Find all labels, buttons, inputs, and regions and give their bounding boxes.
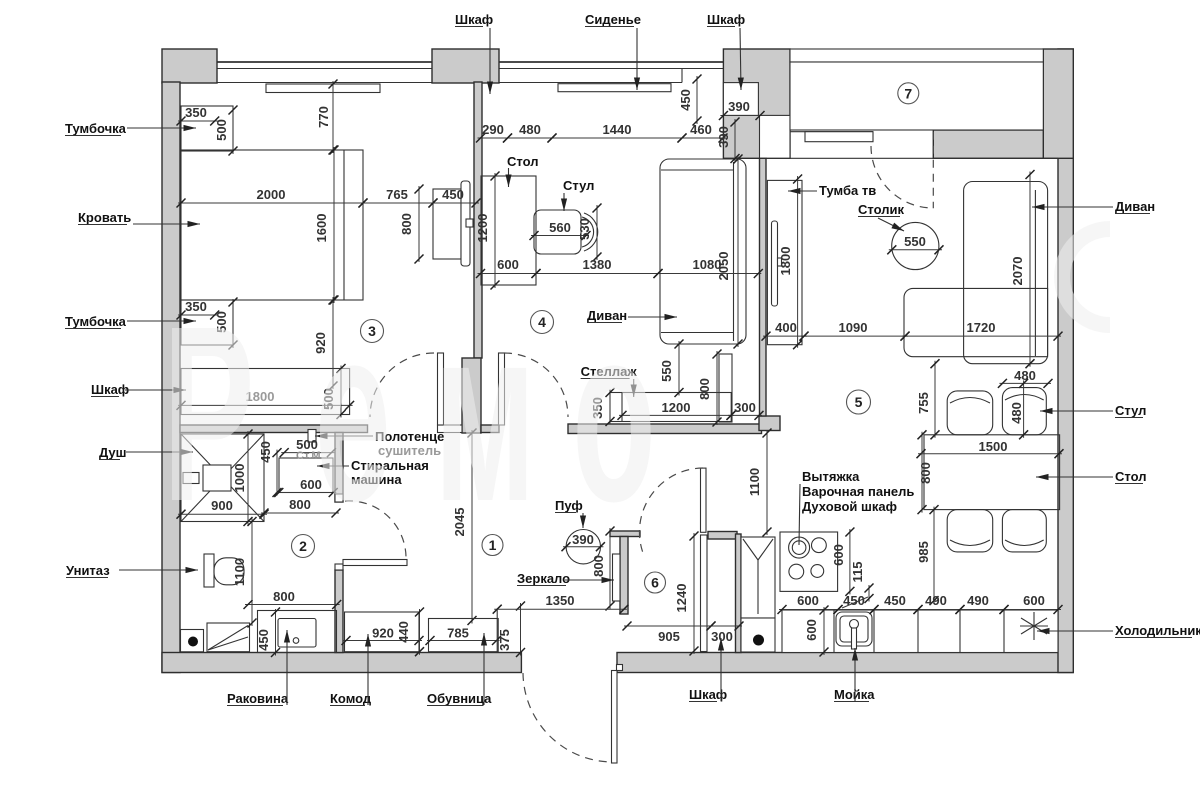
dim 920	[313, 296, 338, 391]
dining chair 1	[947, 391, 993, 435]
wall column between hall doors	[462, 358, 481, 433]
dining chair 4	[1002, 510, 1046, 552]
dining table room5	[924, 435, 1060, 510]
dim 900	[177, 498, 269, 519]
svg-text:920: 920	[372, 626, 394, 641]
svg-text:Комод: Комод	[330, 691, 372, 706]
dim 770	[316, 80, 338, 155]
svg-text:2: 2	[299, 538, 307, 554]
svg-text:800: 800	[273, 589, 295, 604]
dim 1200	[475, 172, 500, 290]
svg-text:115: 115	[850, 562, 865, 583]
label Унитаз	[66, 563, 198, 578]
komod room3	[433, 189, 461, 259]
svg-text:Душ: Душ	[99, 445, 127, 460]
svg-text:800: 800	[399, 213, 414, 235]
svg-text:450: 450	[442, 187, 464, 202]
dining chair 2	[1002, 388, 1046, 435]
dim 450	[870, 593, 923, 614]
radiator under window room3	[266, 84, 380, 93]
svg-text:800: 800	[289, 497, 311, 512]
dining chair 3	[947, 510, 993, 552]
corner boxes bottom-left	[181, 623, 250, 652]
dim 1100	[232, 517, 257, 628]
dim 300	[727, 400, 764, 420]
label Шкаф	[455, 12, 493, 94]
svg-text:5: 5	[855, 394, 863, 410]
svg-text:Стол: Стол	[1115, 469, 1146, 484]
label Зеркало	[517, 571, 614, 586]
wall stub right of column	[481, 425, 499, 433]
dim 800	[260, 497, 341, 518]
label Холодильник	[1037, 623, 1200, 638]
wall bath right cap2	[335, 564, 343, 570]
room number 4	[531, 311, 554, 334]
hob counter with burners	[780, 532, 838, 591]
balcony door open leaf (dashed)	[932, 132, 934, 209]
svg-text:450: 450	[678, 89, 693, 111]
dim 530	[577, 204, 602, 262]
room number 3	[361, 320, 384, 343]
dim 600	[804, 606, 829, 657]
label Стол	[1036, 469, 1146, 484]
svg-text:Холодильник: Холодильник	[1115, 623, 1200, 638]
room 3 door swing arc	[370, 353, 434, 417]
dim 450	[834, 593, 879, 614]
dim 2045	[452, 429, 477, 626]
svg-text:300: 300	[711, 629, 733, 644]
nightstand upper	[181, 106, 233, 151]
svg-text:770: 770	[316, 106, 331, 128]
balcony parapet band	[790, 49, 1043, 62]
stellazh shelf vertical	[719, 354, 732, 422]
dim 800	[399, 185, 424, 264]
watermark	[163, 273, 656, 553]
balcony inner face line	[790, 131, 873, 133]
label машина	[351, 472, 402, 487]
svg-text:600: 600	[804, 619, 819, 641]
bath door swing arc	[345, 501, 406, 557]
svg-text:Тумба тв: Тумба тв	[819, 183, 876, 198]
dim 2070	[1010, 170, 1035, 368]
room 7 floor box	[790, 62, 1043, 130]
nightstand lower	[181, 300, 233, 345]
label Стеллаж	[581, 364, 638, 397]
dim 500	[321, 364, 346, 419]
svg-text:о: о	[572, 273, 656, 553]
label Мойка	[834, 648, 875, 702]
dim 440	[396, 608, 424, 657]
dim 985	[916, 505, 939, 605]
label Стиральная	[317, 458, 429, 473]
dim 460	[678, 122, 728, 143]
dim 800	[697, 350, 722, 427]
svg-text:е: е	[315, 273, 391, 553]
svg-text:Тумбочка: Тумбочка	[65, 121, 127, 136]
dim 755	[916, 359, 940, 439]
label Комод	[330, 634, 372, 706]
svg-text:350: 350	[185, 105, 207, 120]
dim 450	[256, 608, 280, 658]
svg-text:2070: 2070	[1010, 257, 1025, 286]
toilet	[204, 554, 244, 587]
balcony window sill	[805, 132, 873, 142]
dim 765	[359, 187, 438, 208]
svg-text:Сиденье: Сиденье	[585, 12, 641, 27]
svg-text:Шкаф: Шкаф	[91, 382, 129, 397]
svg-text:530: 530	[577, 218, 592, 240]
stellazh shelf horizontal	[610, 393, 731, 422]
label Обувница	[427, 633, 492, 706]
wall room3/bath	[180, 425, 368, 433]
dim 115	[850, 562, 874, 603]
dim 1350	[493, 593, 629, 614]
dim 300	[707, 622, 744, 645]
label Духовой шкаф	[802, 499, 897, 514]
room 6 door swing arc	[639, 468, 703, 553]
svg-text:1100: 1100	[747, 468, 762, 496]
balcony door swing arc	[871, 146, 933, 208]
dim 390	[716, 118, 740, 164]
dim 800	[244, 589, 342, 609]
dim 550	[659, 340, 684, 398]
svg-text:490: 490	[925, 593, 947, 608]
svg-text:м: м	[434, 273, 536, 553]
dim 500	[214, 298, 238, 350]
room number 5	[847, 390, 871, 414]
svg-text:Кровать: Кровать	[78, 210, 131, 225]
dim 350	[177, 105, 220, 126]
label Шкаф	[689, 638, 727, 702]
svg-text:450: 450	[884, 593, 906, 608]
svg-text:600: 600	[1023, 593, 1045, 608]
dim 1090	[800, 320, 910, 341]
dim 600	[831, 528, 854, 596]
label Варочная панель	[802, 484, 914, 499]
wall balcony right column	[1043, 49, 1073, 158]
dim 1800	[778, 175, 802, 350]
bath sink counter	[258, 611, 337, 653]
dim 1000	[232, 430, 253, 527]
room 4 door leaf	[499, 353, 505, 425]
dim 560	[530, 220, 591, 240]
svg-text:1500: 1500	[979, 439, 1008, 454]
svg-text:Шкаф: Шкаф	[707, 12, 745, 27]
svg-text:985: 985	[916, 541, 931, 563]
dim 785	[426, 626, 502, 646]
window seat (sidenie)	[558, 84, 671, 92]
svg-text:Стул: Стул	[563, 178, 594, 193]
svg-text:800: 800	[918, 462, 933, 484]
wall balcony left block	[723, 49, 790, 158]
label Тумбочка	[65, 314, 196, 329]
svg-text:2050: 2050	[716, 252, 731, 281]
wall hall/room4 south (stellazh wall)	[568, 424, 762, 434]
room number 1	[482, 535, 503, 556]
svg-text:600: 600	[497, 257, 519, 272]
wall pier top-middle	[432, 49, 499, 83]
dim 800	[918, 430, 934, 514]
dim 2000	[177, 187, 368, 208]
dim 1500	[917, 439, 1064, 458]
svg-text:785: 785	[447, 626, 469, 641]
dim 480	[503, 122, 557, 143]
svg-text:4: 4	[538, 314, 546, 330]
dim 375	[497, 602, 525, 658]
wall room6 top stub left	[610, 531, 640, 537]
door jamb white left	[438, 425, 463, 433]
dim 480	[1009, 379, 1028, 439]
room 6 door leaf	[701, 468, 707, 532]
mirror on hall wall	[613, 554, 621, 601]
room number 6	[645, 572, 666, 593]
dim 600	[476, 257, 541, 278]
dim 1240	[674, 532, 699, 656]
wall bath right upper	[335, 433, 343, 503]
svg-text:490: 490	[967, 593, 989, 608]
sofa room5 L-shaped	[904, 182, 1048, 364]
svg-text:Стул: Стул	[1115, 403, 1146, 418]
svg-text:2000: 2000	[257, 187, 286, 202]
dim 2050	[716, 155, 743, 349]
svg-text:400: 400	[775, 320, 797, 335]
dim 390	[562, 532, 605, 551]
svg-text:560: 560	[549, 220, 571, 235]
svg-text:390: 390	[728, 99, 750, 114]
svg-text:1350: 1350	[546, 593, 575, 608]
dim 905	[623, 622, 716, 645]
svg-text:375: 375	[497, 629, 512, 651]
wall left	[162, 82, 180, 673]
svg-text:1240: 1240	[674, 584, 689, 613]
label Полотенце	[315, 429, 444, 444]
svg-text:480: 480	[519, 122, 541, 137]
svg-text:500: 500	[214, 119, 229, 141]
svg-text:Унитаз: Унитаз	[66, 563, 110, 578]
dim 500	[280, 437, 336, 457]
wall balcony bottom band	[933, 130, 1043, 158]
label Тумбочка	[65, 121, 196, 136]
svg-text:Стол: Стол	[507, 154, 538, 169]
dim 450	[258, 441, 282, 497]
label Диван	[1032, 199, 1155, 214]
bed	[181, 150, 363, 300]
dim 600	[1000, 593, 1063, 614]
svg-text:1090: 1090	[839, 320, 868, 335]
svg-text:1800: 1800	[778, 247, 793, 276]
dim 1200	[618, 400, 736, 420]
wall between rooms 3 and 4	[474, 82, 482, 358]
table room4	[481, 176, 536, 285]
svg-text:765: 765	[386, 187, 408, 202]
strike over 450	[842, 597, 868, 608]
label Тумба тв	[788, 183, 876, 198]
svg-text:Обувница: Обувница	[427, 691, 492, 706]
label Стол	[505, 154, 538, 187]
dim 290	[476, 122, 512, 143]
svg-text:905: 905	[658, 629, 680, 644]
wall top window band (left window)	[180, 62, 723, 83]
wall bath right cap1	[335, 494, 343, 502]
svg-text:7: 7	[904, 85, 912, 101]
shower tray	[181, 434, 264, 522]
wardrobe room3	[181, 369, 350, 415]
wall bottom right segment	[617, 653, 1073, 673]
svg-text:Варочная панель: Варочная панель	[802, 484, 914, 499]
label Шкаф	[91, 382, 186, 397]
closet niche in balcony block	[723, 83, 758, 116]
svg-text:Раковина: Раковина	[227, 691, 289, 706]
svg-text:550: 550	[659, 360, 674, 382]
svg-text:290: 290	[482, 122, 504, 137]
dim 450	[429, 187, 481, 208]
room number 7	[898, 83, 919, 104]
dim 350	[590, 388, 615, 426]
label Пуф	[555, 498, 586, 528]
sofa room4	[660, 159, 746, 344]
svg-text:Р: Р	[163, 273, 255, 553]
label Диван	[587, 308, 677, 323]
dim 480	[998, 368, 1053, 388]
komod hallway	[345, 612, 420, 652]
wall bath right lower	[335, 570, 343, 653]
fridge snowflake symbol	[1020, 612, 1048, 640]
svg-text:1720: 1720	[967, 320, 996, 335]
hob leader line	[799, 484, 800, 545]
chair room4	[534, 210, 598, 254]
komod side panel	[461, 181, 473, 266]
dim 1800	[177, 389, 355, 410]
dim 1380	[532, 257, 663, 278]
entry door swing arc	[523, 673, 612, 762]
entry door jamb	[617, 665, 623, 671]
svg-text:755: 755	[916, 392, 931, 414]
svg-text:600: 600	[831, 544, 846, 566]
room 5 top wall inner line	[766, 157, 1058, 159]
svg-text:Тумбочка: Тумбочка	[65, 314, 127, 329]
pouf circle	[566, 530, 600, 564]
room 4 door swing arc	[504, 353, 568, 417]
wall kitchen column back	[736, 534, 742, 653]
svg-text:800: 800	[697, 378, 712, 400]
svg-text:440: 440	[396, 621, 411, 643]
label Вытяжка	[802, 469, 860, 484]
wall pier top-left	[162, 49, 217, 83]
dim 550	[887, 234, 943, 254]
tv stand (tumba tv)	[767, 180, 802, 344]
kitchen sink	[836, 612, 872, 649]
entry door leaf	[612, 671, 618, 764]
room6 right partition	[701, 535, 708, 652]
svg-text:450: 450	[256, 629, 271, 651]
room 3 door leaf	[438, 353, 444, 425]
dim 600	[778, 593, 843, 614]
svg-text:Столик: Столик	[858, 202, 904, 217]
wall bottom left segment	[162, 653, 521, 673]
label Кровать	[78, 210, 200, 227]
bed pillow line	[343, 150, 345, 300]
svg-text:450: 450	[258, 441, 273, 463]
tall cabinet with oven symbol	[741, 537, 775, 618]
label Шкаф	[707, 12, 745, 90]
room number 2	[292, 535, 315, 558]
label Раковина	[227, 630, 290, 706]
dim 1600	[314, 146, 339, 305]
wall right	[1058, 49, 1073, 673]
dim 500	[214, 106, 238, 156]
label Стул	[1040, 403, 1146, 418]
kitchen counter row	[782, 610, 1058, 653]
svg-text:480: 480	[1009, 402, 1024, 424]
svg-text:Шкаф: Шкаф	[455, 12, 493, 27]
svg-text:6: 6	[651, 575, 659, 591]
svg-text:1440: 1440	[603, 122, 632, 137]
svg-text:1200: 1200	[662, 400, 691, 415]
svg-text:Духовой шкаф: Духовой шкаф	[802, 499, 897, 514]
dim 1720	[901, 320, 1063, 341]
white niche right of balcony block	[760, 115, 791, 158]
dim 800	[591, 527, 615, 611]
label Душ	[99, 445, 193, 460]
dim 1440	[548, 122, 687, 143]
towel dryer	[308, 430, 316, 443]
svg-text:550: 550	[904, 234, 926, 249]
svg-text:1380: 1380	[583, 257, 612, 272]
label Столик	[858, 202, 904, 231]
cabinet with black dot	[741, 618, 775, 652]
svg-text:800: 800	[591, 555, 606, 577]
svg-text:390: 390	[716, 126, 731, 148]
svg-text:480: 480	[1014, 368, 1036, 383]
bath door leaf	[343, 560, 407, 566]
hall bottom step	[496, 609, 498, 652]
dim 600	[274, 477, 337, 497]
dim 350	[177, 299, 220, 320]
label Сиденье	[585, 12, 641, 90]
shoe cabinet (obuvnitsa)	[429, 619, 499, 652]
dim 490	[956, 593, 1009, 614]
svg-text:300: 300	[734, 400, 756, 415]
dim 450	[678, 75, 702, 126]
label Стул	[561, 178, 595, 211]
wall room6 top stub right	[708, 532, 737, 540]
svg-text:600: 600	[797, 593, 819, 608]
dim 390	[719, 99, 765, 120]
wall between room4 and room5	[760, 158, 767, 416]
dim 490	[914, 593, 965, 614]
dim 920	[342, 626, 424, 646]
washing machine	[279, 458, 333, 493]
svg-text:1200: 1200	[475, 214, 490, 243]
wall room6 left	[620, 537, 628, 615]
svg-text:Зеркало: Зеркало	[517, 571, 570, 586]
dim 1100	[747, 429, 772, 537]
svg-text:Диван: Диван	[1115, 199, 1155, 214]
svg-text:Вытяжка: Вытяжка	[802, 469, 860, 484]
svg-text:1600: 1600	[314, 214, 329, 243]
dim 1080	[654, 257, 763, 278]
stolik round table	[892, 222, 939, 269]
svg-text:1100: 1100	[232, 558, 247, 586]
wall end block right	[759, 416, 780, 431]
dim 400	[762, 320, 809, 341]
